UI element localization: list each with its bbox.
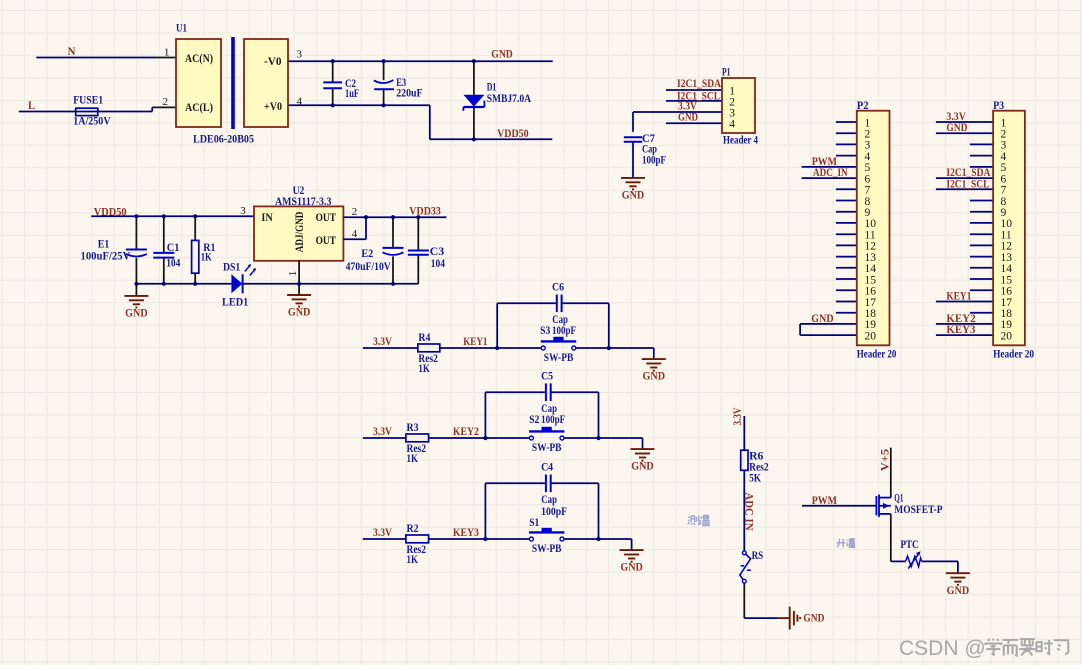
svg-text:20: 20 bbox=[865, 330, 877, 342]
svg-text:ADC_IN: ADC_IN bbox=[813, 167, 848, 179]
svg-text:5K: 5K bbox=[749, 473, 761, 485]
svg-text:8: 8 bbox=[865, 196, 871, 208]
svg-text:C6: C6 bbox=[552, 281, 564, 293]
svg-text:AMS1117-3.3: AMS1117-3.3 bbox=[275, 196, 332, 208]
svg-text:Header 4: Header 4 bbox=[723, 135, 758, 147]
svg-text:VDD50: VDD50 bbox=[497, 128, 529, 140]
svg-text:GND: GND bbox=[946, 122, 967, 134]
svg-text:E1: E1 bbox=[98, 238, 110, 250]
svg-text:6: 6 bbox=[865, 173, 871, 185]
svg-text:SW-PB: SW-PB bbox=[532, 442, 562, 454]
svg-text:Header 20: Header 20 bbox=[993, 349, 1034, 361]
svg-text:3.3V: 3.3V bbox=[373, 336, 393, 348]
svg-text:16: 16 bbox=[1001, 286, 1013, 298]
svg-text:10: 10 bbox=[1001, 218, 1013, 230]
svg-text:PTC: PTC bbox=[901, 539, 919, 551]
svg-text:R4: R4 bbox=[418, 332, 430, 344]
svg-text:11: 11 bbox=[865, 230, 876, 242]
svg-text:2: 2 bbox=[865, 129, 871, 141]
svg-text:100uF/25V: 100uF/25V bbox=[81, 251, 131, 263]
svg-text:2: 2 bbox=[1001, 129, 1007, 141]
svg-text:1: 1 bbox=[164, 47, 170, 59]
svg-text:1: 1 bbox=[865, 117, 871, 129]
svg-text:19: 19 bbox=[1001, 319, 1013, 331]
svg-text:P3: P3 bbox=[993, 100, 1004, 112]
svg-text:GND: GND bbox=[678, 112, 698, 124]
svg-text:1: 1 bbox=[1001, 117, 1007, 129]
svg-text:4: 4 bbox=[729, 119, 735, 131]
svg-text:ADC IN: ADC IN bbox=[743, 493, 755, 532]
svg-text:GND: GND bbox=[491, 49, 513, 61]
svg-text:6: 6 bbox=[1001, 173, 1007, 185]
svg-text:11: 11 bbox=[1001, 230, 1012, 242]
svg-text:14: 14 bbox=[865, 263, 877, 275]
svg-text:D1: D1 bbox=[487, 82, 497, 94]
svg-text:P2: P2 bbox=[857, 100, 869, 112]
svg-text:KEY1: KEY1 bbox=[463, 336, 487, 348]
svg-text:KEY2: KEY2 bbox=[453, 426, 479, 438]
svg-text:R2: R2 bbox=[407, 523, 419, 535]
svg-text:GND: GND bbox=[643, 371, 666, 383]
svg-text:3.3V: 3.3V bbox=[373, 527, 393, 539]
svg-text:1K: 1K bbox=[407, 453, 419, 465]
svg-text:18: 18 bbox=[865, 308, 877, 320]
svg-text:C5: C5 bbox=[541, 370, 553, 382]
svg-text:3.3V: 3.3V bbox=[732, 407, 744, 426]
svg-text:GND: GND bbox=[125, 308, 148, 320]
svg-text:C3: C3 bbox=[430, 246, 445, 258]
svg-text:KEY3: KEY3 bbox=[453, 527, 479, 539]
svg-text:+V0: +V0 bbox=[264, 101, 282, 113]
svg-text:3: 3 bbox=[240, 205, 246, 217]
svg-text:GND: GND bbox=[631, 461, 654, 473]
svg-text:-V0: -V0 bbox=[264, 56, 282, 68]
svg-text:15: 15 bbox=[1001, 274, 1013, 286]
svg-text:R3: R3 bbox=[407, 422, 419, 434]
svg-text:19: 19 bbox=[865, 319, 877, 331]
svg-text:GND: GND bbox=[811, 313, 833, 325]
svg-text:LED1: LED1 bbox=[222, 297, 249, 309]
svg-text:PWM: PWM bbox=[812, 156, 837, 168]
svg-text:Cap: Cap bbox=[642, 143, 657, 155]
svg-text:2: 2 bbox=[352, 206, 358, 218]
svg-text:4: 4 bbox=[297, 96, 303, 108]
svg-text:OUT: OUT bbox=[316, 212, 337, 224]
svg-text:P1: P1 bbox=[722, 67, 731, 79]
svg-text:15: 15 bbox=[865, 274, 877, 286]
svg-text:4: 4 bbox=[865, 151, 871, 163]
svg-text:4: 4 bbox=[352, 228, 358, 240]
svg-text:1K: 1K bbox=[418, 363, 430, 375]
svg-text:3.3V: 3.3V bbox=[946, 111, 966, 123]
svg-text:C4: C4 bbox=[541, 461, 553, 473]
svg-text:GND: GND bbox=[622, 190, 645, 202]
svg-text:LDE06-20B05: LDE06-20B05 bbox=[193, 134, 254, 146]
svg-text:VDD33: VDD33 bbox=[409, 205, 441, 217]
svg-text:5: 5 bbox=[865, 162, 871, 174]
svg-text:12: 12 bbox=[865, 241, 877, 253]
svg-text:12: 12 bbox=[1001, 241, 1013, 253]
svg-text:I2C1_SDA: I2C1_SDA bbox=[677, 78, 722, 90]
svg-text:AC(L): AC(L) bbox=[185, 102, 213, 114]
svg-text:18: 18 bbox=[1001, 308, 1013, 320]
svg-text:3: 3 bbox=[1001, 140, 1007, 152]
svg-text:9: 9 bbox=[865, 207, 871, 219]
svg-text:3: 3 bbox=[297, 49, 303, 61]
svg-text:GND: GND bbox=[947, 585, 970, 597]
svg-text:GND: GND bbox=[620, 562, 643, 574]
svg-text:OUT: OUT bbox=[316, 235, 337, 247]
svg-text:100pF: 100pF bbox=[541, 414, 565, 426]
svg-text:10: 10 bbox=[865, 218, 877, 230]
svg-text:IN: IN bbox=[261, 212, 273, 224]
svg-text:8: 8 bbox=[1001, 196, 1007, 208]
svg-text:SW-PB: SW-PB bbox=[532, 543, 562, 555]
svg-text:MOSFET-P: MOSFET-P bbox=[894, 504, 942, 516]
svg-text:GND: GND bbox=[803, 612, 824, 624]
svg-text:V+5: V+5 bbox=[880, 449, 892, 472]
svg-text:RS: RS bbox=[752, 550, 764, 562]
svg-text:E2: E2 bbox=[361, 248, 373, 260]
svg-text:1K: 1K bbox=[407, 554, 419, 566]
svg-text:1uF: 1uF bbox=[345, 88, 359, 100]
svg-text:KEY3: KEY3 bbox=[946, 324, 975, 336]
svg-text:S2: S2 bbox=[529, 414, 539, 426]
svg-text:I2C1_SDA: I2C1_SDA bbox=[946, 167, 991, 179]
svg-text:20: 20 bbox=[1001, 330, 1013, 342]
svg-text:4: 4 bbox=[1001, 151, 1007, 163]
svg-text:3: 3 bbox=[729, 108, 735, 120]
svg-text:17: 17 bbox=[865, 297, 877, 309]
svg-text:5: 5 bbox=[1001, 162, 1007, 174]
svg-text:2: 2 bbox=[163, 96, 169, 108]
svg-text:3: 3 bbox=[865, 140, 871, 152]
svg-text:Header 20: Header 20 bbox=[857, 349, 897, 361]
svg-text:U1: U1 bbox=[176, 23, 187, 35]
svg-text:220uF: 220uF bbox=[396, 88, 422, 100]
svg-text:SMBJ7.0A: SMBJ7.0A bbox=[487, 93, 532, 105]
svg-text:FUSE1: FUSE1 bbox=[73, 94, 103, 106]
svg-text:KEY2: KEY2 bbox=[946, 313, 976, 325]
svg-text:I2C1_SCL: I2C1_SCL bbox=[946, 178, 989, 190]
svg-text:SW-PB: SW-PB bbox=[544, 352, 574, 364]
svg-text:100pF: 100pF bbox=[552, 325, 576, 337]
svg-text:17: 17 bbox=[1001, 297, 1013, 309]
svg-text:104: 104 bbox=[166, 258, 180, 270]
svg-text:16: 16 bbox=[865, 286, 877, 298]
svg-text:3.3V: 3.3V bbox=[373, 426, 393, 438]
svg-text:7: 7 bbox=[1001, 185, 1007, 197]
svg-text:ADJ/GND: ADJ/GND bbox=[294, 212, 306, 253]
svg-text:1A/250V: 1A/250V bbox=[73, 116, 111, 128]
svg-text:GND: GND bbox=[288, 307, 311, 319]
svg-text:13: 13 bbox=[1001, 252, 1013, 264]
svg-text:Cap: Cap bbox=[541, 494, 557, 506]
svg-text:470uF/10V: 470uF/10V bbox=[346, 261, 392, 273]
svg-text:AC(N): AC(N) bbox=[185, 53, 213, 65]
svg-text:9: 9 bbox=[1001, 207, 1007, 219]
svg-text:L: L bbox=[28, 100, 35, 112]
svg-text:S1: S1 bbox=[529, 517, 539, 529]
svg-text:7: 7 bbox=[865, 185, 871, 197]
svg-text:Q1: Q1 bbox=[894, 492, 903, 504]
svg-text:C1: C1 bbox=[167, 242, 180, 254]
svg-text:KEY1: KEY1 bbox=[946, 291, 971, 303]
svg-text:100pF: 100pF bbox=[642, 155, 666, 167]
svg-text:13: 13 bbox=[865, 252, 877, 264]
svg-text:1: 1 bbox=[287, 271, 299, 277]
svg-text:1K: 1K bbox=[201, 251, 212, 263]
svg-text:104: 104 bbox=[431, 258, 445, 270]
svg-text:S3: S3 bbox=[540, 325, 550, 337]
svg-text:DS1: DS1 bbox=[223, 261, 241, 273]
svg-text:14: 14 bbox=[1001, 263, 1013, 275]
svg-text:CSDN @: CSDN @ bbox=[899, 637, 986, 660]
svg-text:N: N bbox=[68, 46, 77, 58]
svg-text:PWM: PWM bbox=[812, 495, 837, 507]
svg-text:100pF: 100pF bbox=[541, 506, 567, 518]
